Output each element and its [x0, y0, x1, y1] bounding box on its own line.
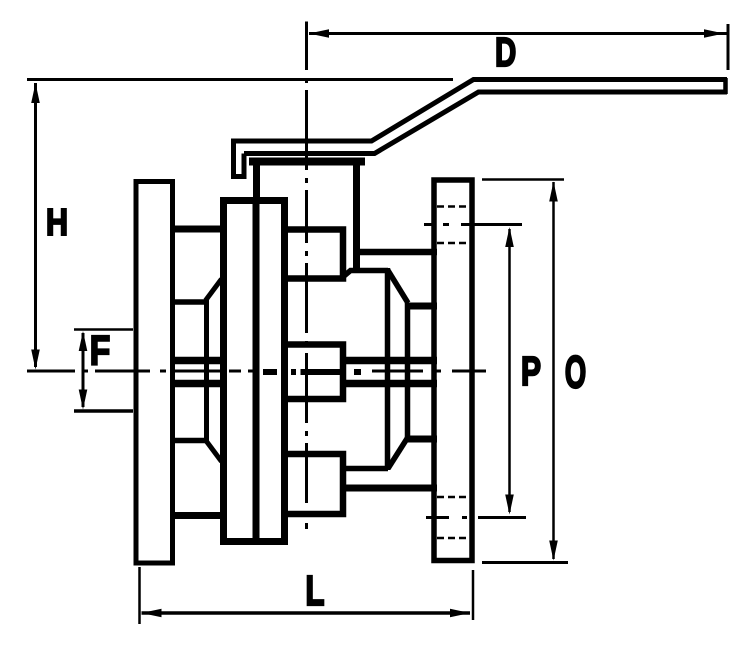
- dimension F line: [82, 333, 85, 407]
- dimension L right arrowhead: [450, 609, 470, 618]
- stem washer plate: [249, 158, 365, 166]
- left pipe flange: [136, 182, 173, 564]
- label O: [566, 356, 585, 388]
- dimension H bottom arrowhead: [31, 350, 40, 370]
- dimension F top extension line: [74, 328, 133, 331]
- node thick centerline dash through ball center: [263, 369, 361, 375]
- label P: [523, 357, 540, 385]
- right top stud bar: [406, 303, 437, 310]
- dimension D line: [309, 32, 727, 35]
- dimension L left arrowhead: [142, 609, 162, 618]
- dimension L left extension line: [138, 567, 141, 624]
- left bore line top: [172, 299, 207, 305]
- label F: [92, 336, 109, 364]
- dimension P bottom arrowhead: [505, 495, 514, 515]
- dimension O bottom arrowhead: [549, 541, 558, 561]
- stem housing left edge: [253, 164, 260, 204]
- handle right end cap: [723, 78, 728, 94]
- dimension H line: [34, 83, 37, 367]
- dimension P top extension line (bolt circle dash-dot): [424, 223, 522, 226]
- dimension L right extension line: [472, 570, 475, 620]
- shaft tube right top: [344, 357, 438, 365]
- left bore line bottom: [172, 438, 207, 444]
- handle outer contour with end hook: [234, 80, 728, 177]
- handle inner contour: [244, 92, 727, 154]
- dimension H top arrowhead: [31, 83, 40, 103]
- left body bottom chamfer: [206, 440, 222, 462]
- wire top extension line (H/D reference): [27, 78, 453, 81]
- label D: [497, 38, 515, 66]
- center body flange divider: [253, 200, 260, 541]
- dimension F bottom arrowhead: [79, 390, 88, 410]
- dimension P line: [508, 229, 511, 512]
- right lower connector bar: [344, 485, 438, 492]
- dimension L line: [142, 611, 471, 615]
- right body edge vertical: [385, 268, 391, 470]
- dimension F top arrowhead: [79, 331, 88, 351]
- dimension D left arrowhead: [309, 29, 329, 38]
- right body shoulder bottom: [344, 466, 389, 472]
- left body waist: [204, 300, 209, 443]
- label H: [48, 209, 66, 235]
- lower drain boss box: [281, 454, 343, 514]
- right bottom stud bar: [406, 436, 437, 443]
- dimension P top arrowhead: [505, 227, 514, 247]
- right flange bolt hole hidden lines (top): [437, 207, 470, 244]
- dimension F bottom extension line: [74, 409, 133, 413]
- center body flange pair: [224, 201, 285, 542]
- left top stud bar: [172, 226, 224, 233]
- left body top chamfer: [206, 279, 222, 301]
- stem housing right edge: [353, 164, 360, 273]
- label L: [307, 576, 323, 605]
- upper stem boss box: [281, 230, 343, 279]
- vertical centerline (stem axis, dash-dot): [305, 22, 308, 530]
- right body top chamfer: [388, 271, 408, 304]
- right adapter vertical: [405, 303, 411, 440]
- horizontal centerline (flow axis, dash-dot): [27, 370, 486, 373]
- dimension O line: [552, 182, 555, 559]
- right pipe flange: [434, 180, 472, 561]
- right body shoulder top: [341, 271, 388, 279]
- left bottom stud bar: [172, 512, 224, 519]
- dimension D right extension tick: [727, 24, 730, 70]
- dimension O top arrowhead: [549, 182, 558, 202]
- dimension O top extension line: [482, 178, 564, 181]
- right upper connector bar: [353, 249, 437, 256]
- right body bottom chamfer: [388, 437, 408, 469]
- shaft tube left bottom: [172, 380, 224, 388]
- dimension O bottom extension line: [482, 561, 568, 564]
- right flange bolt hole hidden lines (bottom): [437, 497, 470, 538]
- shaft tube left top: [172, 357, 224, 365]
- dimension D right arrowhead: [704, 29, 724, 38]
- shaft tube right bottom: [344, 380, 438, 388]
- dimension P bottom extension line (bolt circle dash-dot): [426, 516, 526, 519]
- middle port boss box: [281, 345, 343, 400]
